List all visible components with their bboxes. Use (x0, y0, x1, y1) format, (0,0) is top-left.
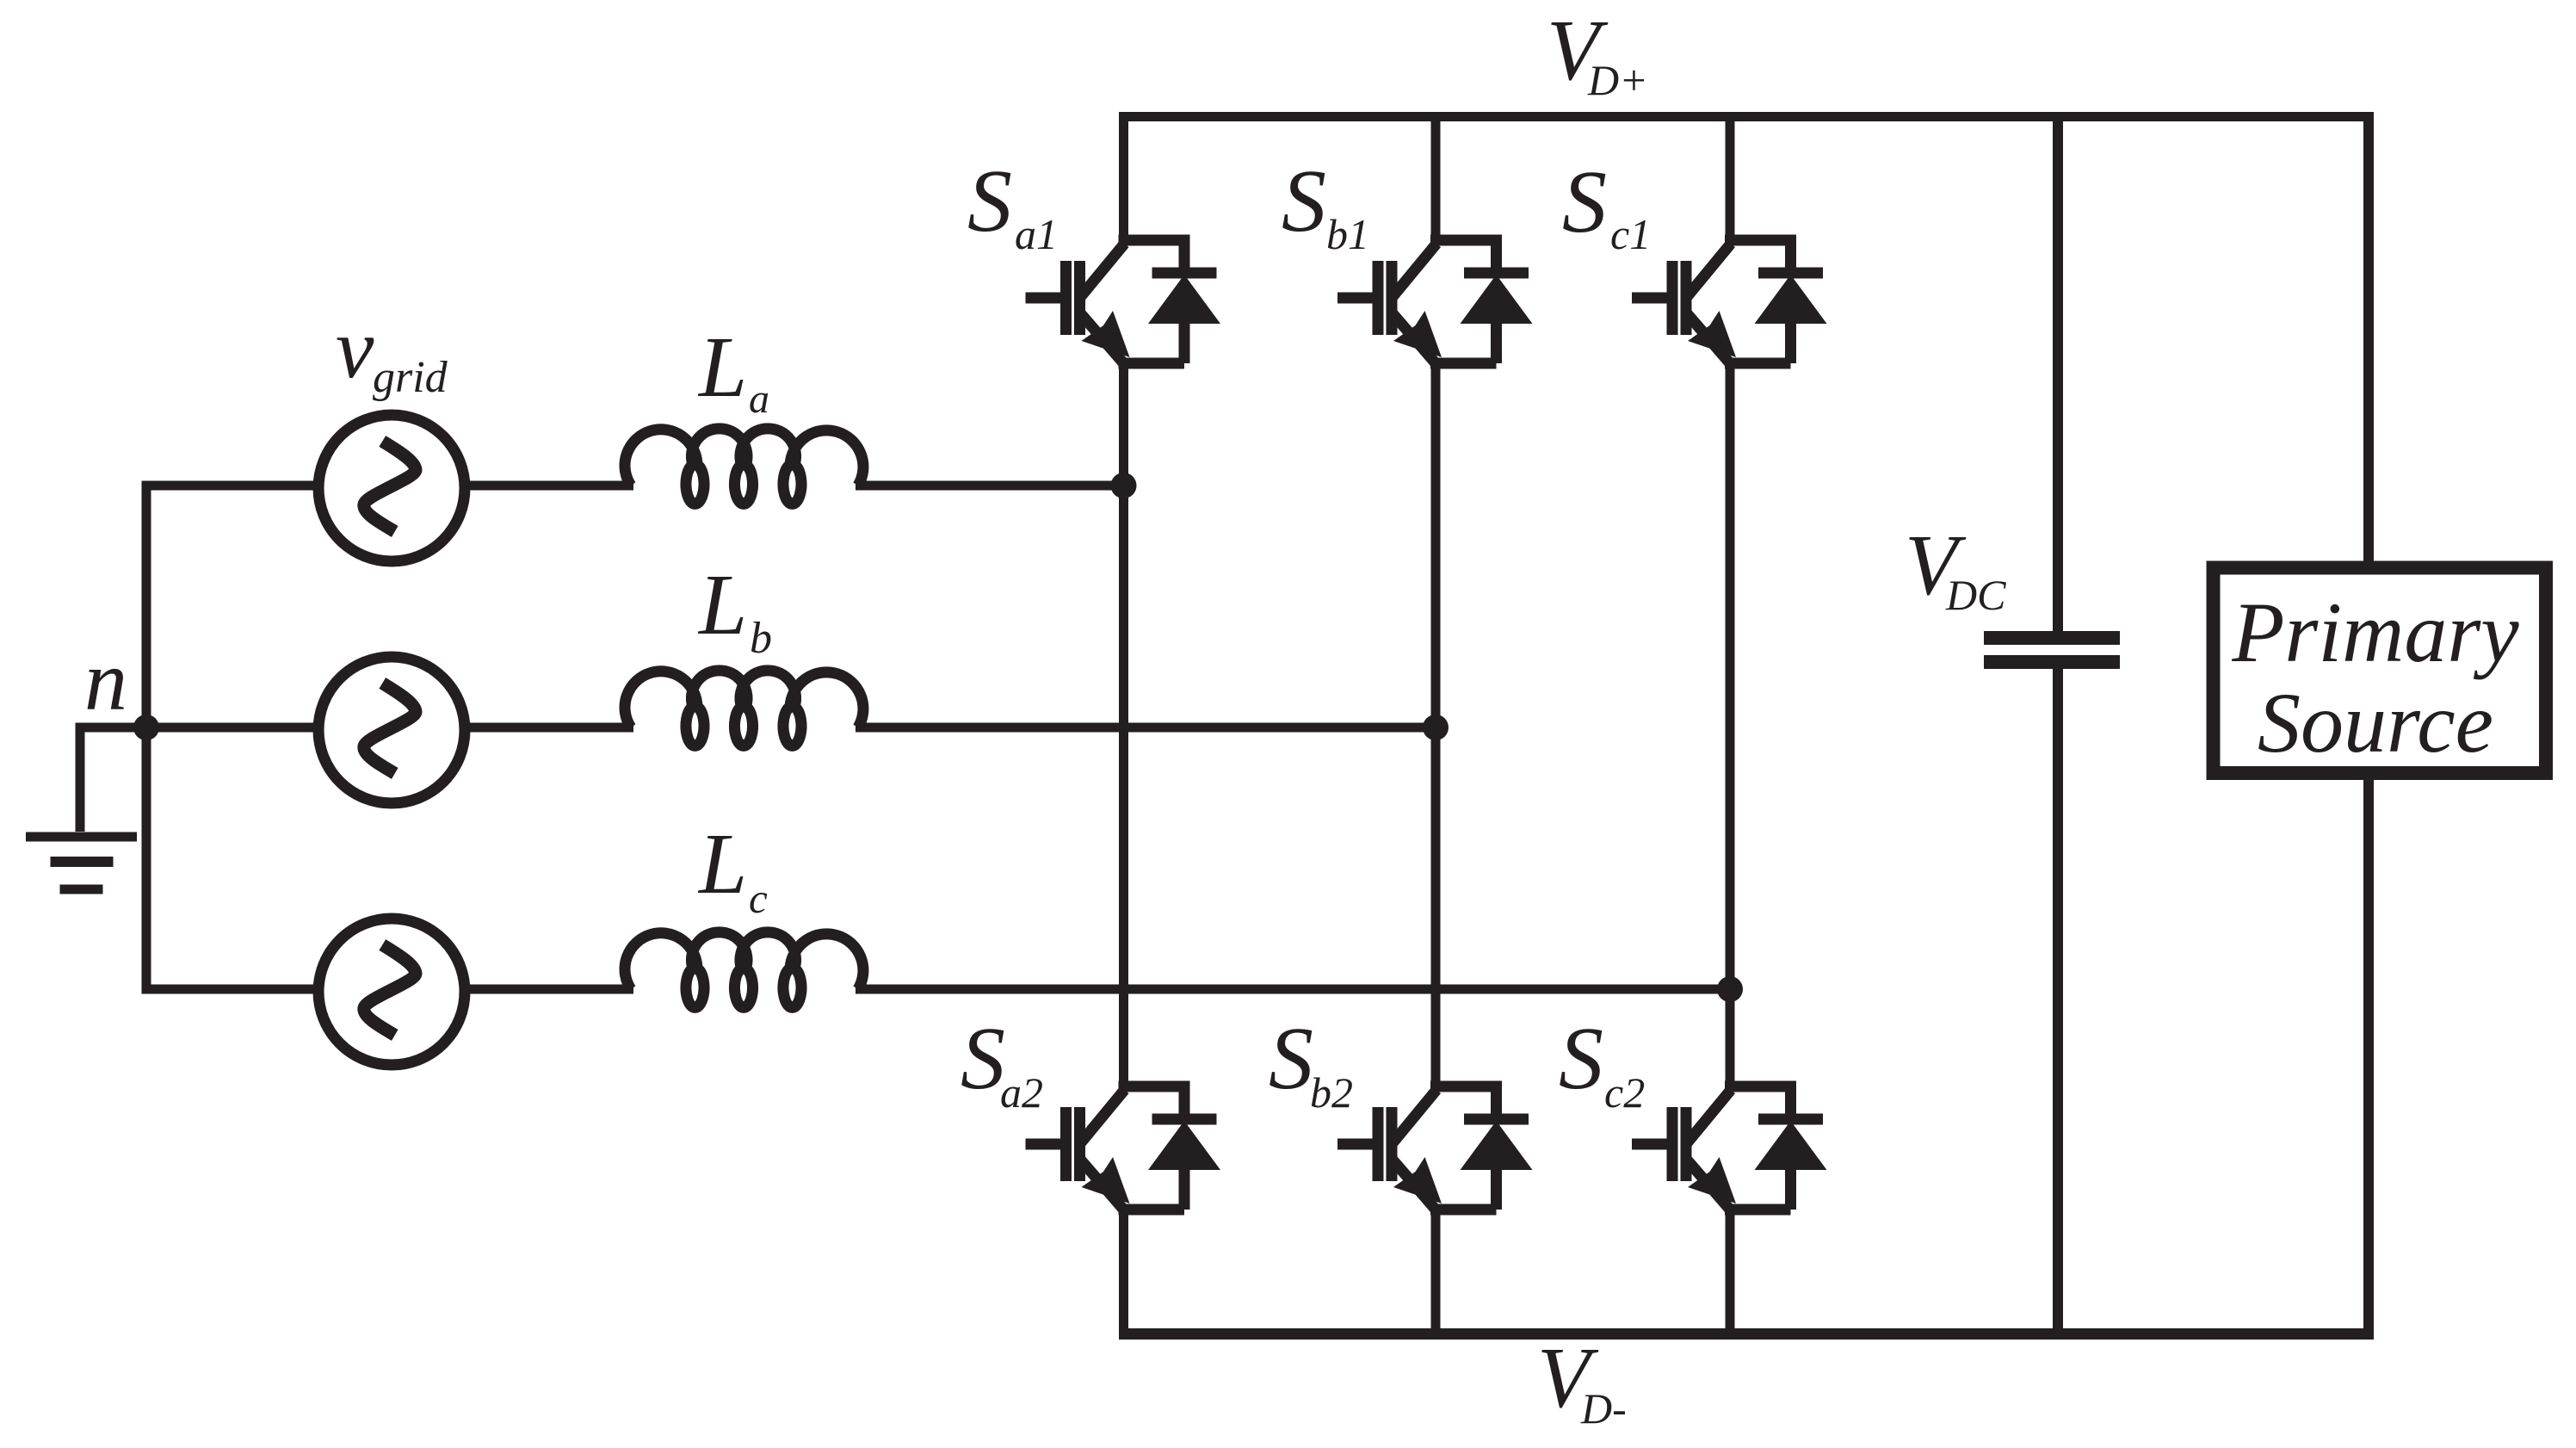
svg-text:a1: a1 (1015, 210, 1058, 258)
svg-text:S: S (967, 152, 1012, 251)
svg-text:L: L (697, 815, 747, 912)
svg-text:S: S (1282, 152, 1326, 251)
svg-text:S: S (1562, 152, 1607, 251)
svg-text:Primary: Primary (2231, 585, 2519, 680)
svg-text:a2: a2 (1000, 1068, 1043, 1117)
svg-text:L: L (697, 319, 747, 415)
svg-text:b: b (750, 614, 772, 663)
svg-text:c: c (749, 875, 768, 922)
svg-text:S: S (961, 1009, 1005, 1108)
svg-text:D-: D- (1580, 1384, 1627, 1433)
svg-text:S: S (1269, 1009, 1313, 1108)
svg-text:n: n (84, 633, 127, 728)
svg-text:Source: Source (2258, 675, 2493, 770)
svg-text:b2: b2 (1310, 1068, 1353, 1117)
svg-text:c1: c1 (1610, 210, 1651, 258)
svg-text:L: L (697, 556, 747, 653)
svg-text:S: S (1559, 1009, 1603, 1108)
svg-text:a: a (749, 376, 769, 422)
svg-text:c2: c2 (1604, 1068, 1645, 1117)
svg-text:DC: DC (1945, 571, 2006, 619)
svg-text:v: v (336, 300, 374, 396)
svg-text:b1: b1 (1326, 210, 1369, 258)
svg-text:grid: grid (373, 353, 448, 402)
svg-text:D+: D+ (1587, 56, 1648, 104)
